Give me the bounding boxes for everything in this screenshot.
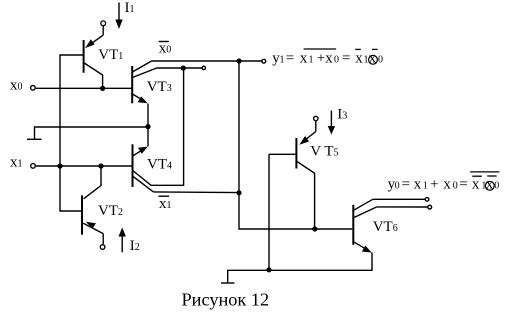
svg-text:=: = (402, 177, 410, 193)
svg-text:=: = (286, 50, 294, 66)
wire VT3 collector2 (157, 67, 202, 69)
svg-text:x0: x0 (10, 77, 23, 93)
node bus on x1 (57, 163, 62, 168)
node VT2 collector on x1 (98, 163, 103, 168)
transistor VT6 (353, 199, 377, 252)
label x1-bar (159, 196, 172, 212)
equation y0 (388, 177, 500, 193)
svg-text:=: = (459, 177, 467, 193)
svg-text:x: x (414, 177, 422, 193)
svg-text:1: 1 (309, 54, 314, 65)
wire x0 (36, 87, 132, 89)
wire VT6 collector2 to output (377, 206, 428, 208)
current source I2 (119, 228, 126, 253)
svg-text:VT4: VT4 (147, 157, 172, 173)
terminal y0 collector2 (428, 205, 432, 209)
svg-text:x1: x1 (159, 196, 172, 212)
svg-text:0: 0 (453, 181, 458, 192)
svg-text:x: x (443, 177, 451, 193)
wire VT4 collector2 (153, 191, 239, 194)
node emitter-ground junction (145, 124, 150, 129)
svg-text:1: 1 (423, 181, 428, 192)
svg-text:I3: I3 (337, 107, 347, 123)
label x0-bar (159, 40, 172, 56)
wire bus y1 to VT6 base (239, 61, 352, 229)
svg-text:0: 0 (378, 54, 383, 65)
node VT5 collector on base wire (312, 226, 317, 231)
svg-text:x1: x1 (10, 155, 23, 171)
transistor VT2 (82, 166, 105, 249)
svg-text:0: 0 (395, 181, 400, 192)
svg-text:VT3: VT3 (147, 79, 172, 95)
current source I3 (328, 111, 335, 135)
node VT1 collector on x0 (100, 86, 105, 91)
svg-text:VT2: VT2 (98, 203, 123, 219)
svg-text:+: + (317, 50, 325, 66)
node y1 bus (236, 58, 241, 63)
node collector2 junction (181, 66, 186, 71)
ground bottom (221, 282, 235, 284)
node VT5 base bottom junction (266, 267, 271, 272)
svg-text:VT1: VT1 (98, 47, 123, 63)
terminal y1 (262, 59, 266, 63)
svg-text:x: x (325, 50, 333, 66)
svg-text:+: + (430, 177, 438, 193)
terminal intermediate output (202, 66, 205, 69)
svg-text:VT6: VT6 (373, 219, 398, 235)
node VT4 collector2 on bus (236, 190, 241, 195)
ground left (27, 127, 148, 139)
wire base bus vertical (60, 55, 83, 211)
transistor VT1 (84, 21, 106, 89)
wire VT5 base to bottom (268, 154, 270, 269)
svg-text:1: 1 (280, 54, 285, 65)
svg-text:x: x (355, 50, 363, 66)
wire VT3 collector1 to y1 (152, 60, 262, 62)
transistor VT5 (269, 116, 318, 229)
svg-text:I1: I1 (125, 0, 135, 16)
svg-text:x: x (472, 177, 480, 193)
terminal y0 collector1 (425, 198, 429, 202)
svg-text:x0: x0 (159, 40, 172, 56)
svg-text:I2: I2 (130, 238, 140, 254)
current source I1 (115, 3, 122, 30)
svg-text:V T5: V T5 (310, 144, 338, 160)
transistor VT3 (132, 61, 157, 103)
svg-text:Рисунок 12: Рисунок 12 (182, 289, 270, 309)
svg-text:0: 0 (334, 54, 339, 65)
svg-text:x: x (300, 50, 308, 66)
wire VT6 emitter to ground (228, 253, 372, 283)
equation y1 (272, 50, 383, 66)
wire VT6 collector1 to output (373, 198, 425, 200)
wire VT4 collector1 cross-couple (151, 68, 184, 185)
wire x1 (36, 165, 133, 167)
svg-text:0: 0 (494, 181, 499, 192)
transistor VT4 (133, 144, 154, 192)
wire common emitter VT3 VT4 (147, 104, 149, 147)
svg-text:=: = (342, 50, 350, 66)
